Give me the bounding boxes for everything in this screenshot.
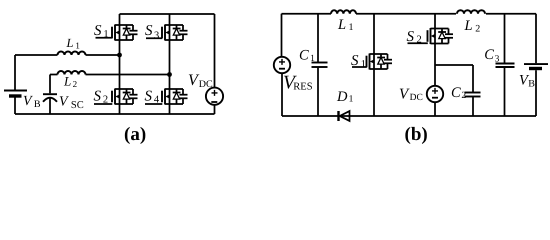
source V_DC (a): [206, 88, 223, 105]
svg-text:S4: S4: [145, 89, 160, 106]
wire: S1 drain from top rail: [119, 14, 121, 25]
wire: battery V_B bottom stem: [14, 97, 16, 114]
wire: right edge of (a) down to V_DC source: [214, 14, 216, 88]
svg-text:VB: VB: [519, 73, 535, 90]
wire: V_B(b) to bottom rail: [535, 70, 537, 116]
wire: V_RES branch from top rail: [281, 14, 283, 57]
battery V_B (b): [524, 64, 548, 68]
transistor S2 (b): [408, 28, 454, 44]
svg-text:S2: S2: [94, 89, 109, 106]
wire: V_DC(b) to bottom rail: [434, 102, 436, 116]
wire: L1 row, battery corner to inductor: [15, 54, 58, 56]
svg-text:VSC: VSC: [59, 94, 84, 111]
svg-text:VRES: VRES: [283, 73, 313, 94]
inductor L2 (a): [58, 71, 86, 75]
wire: S4 drain from L2 node: [169, 75, 171, 90]
wire: S1(b) source to bottom rail: [373, 69, 375, 116]
inductor L1 (b): [331, 10, 356, 13]
wire: S2(b) source down to V_DC source: [434, 44, 436, 86]
svg-text:VDC: VDC: [188, 72, 213, 90]
wire: S3 source down to L2 node: [169, 40, 171, 75]
svg-text:VB: VB: [23, 94, 41, 110]
inductor L2 (b): [457, 10, 485, 13]
wire: top rail (b), L1 to L2: [356, 13, 456, 15]
battery V_B (a): [4, 91, 27, 97]
capacitor C1: [312, 63, 328, 68]
node: junction of L1 with S1/S2 leg: [117, 53, 122, 58]
svg-text:(a): (a): [124, 124, 146, 145]
inductor L1 (a): [58, 52, 86, 55]
svg-text:VDC: VDC: [399, 87, 423, 103]
transistor S3 (a): [146, 25, 188, 41]
wire: C2 tap from S2 source node: [435, 64, 473, 66]
wire: S3 drain from top rail: [169, 14, 171, 25]
wire: L2 row, V_SC corner to inductor: [50, 74, 58, 76]
wire: V_RES to bottom rail: [281, 73, 283, 116]
wire: S1(b) drain from top rail: [373, 14, 375, 54]
diode D1: [339, 111, 350, 121]
node: junction of L2 with S3/S4 leg: [167, 72, 172, 77]
capacitor C3: [496, 64, 515, 68]
svg-text:L2: L2: [63, 74, 77, 89]
source V_DC (b): [427, 86, 443, 102]
wire: S2(b) drain from top rail: [434, 14, 436, 29]
wire: C2 branch down: [472, 65, 474, 93]
wire: V_SC bottom stem: [49, 99, 51, 115]
wire: C3 branch from top rail: [504, 14, 506, 64]
wire: S2 source to bottom rail: [119, 104, 121, 114]
svg-text:C2: C2: [451, 85, 466, 101]
transistor S1 (b): [352, 54, 392, 70]
wire: C3 to bottom rail: [504, 67, 506, 116]
wire: V_SC branch corner down to plate: [49, 75, 51, 94]
svg-text:S1: S1: [94, 23, 109, 40]
wire: S1 source down to L1 node: [119, 40, 121, 55]
wire: bottom rail of circuit (a): [15, 113, 215, 115]
wire: leg between L1 node and S2 drain: [119, 55, 121, 89]
wire: battery V_B branch (top corner down to plate): [14, 55, 16, 90]
source V_RES: [274, 57, 290, 73]
transistor S4 (a): [145, 89, 188, 105]
svg-text:(b): (b): [405, 124, 428, 145]
svg-text:L1: L1: [66, 36, 80, 50]
wire: C1 to bottom rail: [317, 67, 319, 116]
wire: bottom rail of circuit (b): [282, 115, 536, 117]
svg-text:L2: L2: [464, 18, 481, 35]
transistor S1 (a): [96, 25, 138, 41]
wire: C2 to bottom rail: [472, 97, 474, 117]
svg-text:D1: D1: [336, 89, 354, 105]
wire: top rail of circuit (a): [120, 13, 215, 15]
wire: V_B(b) branch from top rail: [535, 14, 537, 64]
wire: L2 to S3/S4 midpoint node: [86, 74, 170, 76]
svg-text:S3: S3: [145, 23, 159, 41]
wire: top rail (b), V_RES corner to L1: [282, 13, 332, 15]
wire: S4 source to bottom rail: [169, 104, 171, 114]
svg-text:S1: S1: [351, 53, 366, 70]
transistor S2 (a): [94, 89, 138, 105]
svg-text:C1: C1: [299, 48, 315, 64]
wire: L1 to S1/S2 midpoint node: [86, 54, 120, 56]
wire: V_DC source to bottom rail (a): [214, 105, 216, 114]
svg-text:C3: C3: [484, 47, 499, 64]
wire: C1 branch from top rail: [317, 14, 319, 63]
wire: top rail (b), L2 to V_B corner: [486, 13, 536, 15]
svg-text:L1: L1: [337, 17, 354, 33]
supercapacitor V_SC: [43, 94, 57, 102]
capacitor C2: [465, 93, 481, 97]
